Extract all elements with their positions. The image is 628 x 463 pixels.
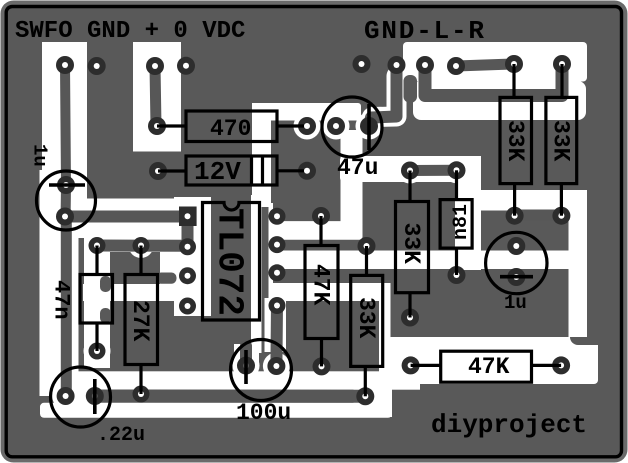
wire clearance: channel with 47n/27K top pads [84,231,200,252]
wire clearance: bottom band upper [40,371,420,389]
pad R33K-2 top [553,55,571,73]
svg-text:SWFO GND + 0 VDC: SWFO GND + 0 VDC [15,18,245,45]
resistor R33K-1 [500,64,532,216]
pad TL072 pin1 square [179,207,197,227]
pad P4 [177,57,195,75]
svg-text:1u: 1u [29,144,51,167]
pad P1 SWF [56,56,74,74]
svg-text:.22u: .22u [97,424,145,447]
pad C100u minus [267,357,285,375]
wire clearance: bottom band lower [40,403,392,418]
pad R33K-mid top [358,237,376,255]
resistor R47K-horiz [411,351,561,382]
pad R47K-vert top [312,207,330,225]
pad C100u plus [237,357,255,375]
capacitor C1u-left outline [37,171,96,230]
pad C1uR minus [507,268,525,286]
wire: C1u bottom to IC pin1 [65,211,184,223]
resistor R33K-2 [546,64,577,216]
wire: C1u bottom down to C.22u left [61,217,72,393]
wire: IC pin1 to pin2 [182,216,194,247]
pad top right D [447,57,465,75]
wire clearance: C100u left pad channel [234,344,259,366]
wire: C1u top to bottom pad [61,185,71,217]
svg-text:GND-L-R: GND-L-R [364,16,486,46]
pad TL072 pin2 [179,238,196,255]
wire: pad B to C47u plus [369,65,397,126]
svg-text:33K: 33K [548,120,574,162]
pad R470 right [298,117,316,135]
pad R47K-vert bottom [313,357,331,375]
pad C1u-left bottom [56,208,74,226]
wire clearance: vertical west of 47u island [341,130,363,225]
resistor R47K-vert [305,216,338,366]
pad C.22u plus [86,387,104,405]
wire clearance: band above R470 right pad [252,103,361,121]
wire clearance: band alpha across 1u-right [269,251,587,270]
wire clearance: channel pad4R to C100u right pad [265,298,287,352]
pad TL072 pin3 [179,267,196,284]
wire clearance: 18n column [455,156,481,270]
wire: pad to pad in top band [456,64,514,66]
pad D12V right [298,162,316,180]
wire: pin2 to C47n/R27K tops [97,240,188,252]
wire clearance: right column [569,194,588,345]
wire clearance: column B (GND pin to R470 left) [133,42,181,152]
svg-text:33K: 33K [353,297,379,339]
wire: C100u left stub [240,346,252,366]
wire clearance: band beta right [269,283,390,301]
pad R47K-horiz right [552,356,570,374]
wire: 33K-up top to 18n top [410,165,457,176]
capacitor C1u-right outline [486,232,547,293]
plane notches in 47n column [100,276,111,292]
wire: P3 to R470 left [155,66,156,126]
op-amp U1 TL072 outline [203,203,260,321]
pad R470 left [148,117,166,135]
svg-text:47n: 47n [49,280,74,320]
wire clearance: 33K bottom pads band [479,190,587,211]
plane notch above 47K right pad [570,337,598,345]
pad R33K-up top [401,162,419,180]
pad R33K-1 top [505,55,523,73]
wire clearance: strip under IC right edge [251,195,262,353]
svg-text:47u: 47u [337,155,378,181]
wire clearance: R47K horizontal band [387,337,598,384]
resistor R33K-mid [351,246,383,396]
pad TL072 pin7 [269,236,286,253]
capacitor C47u outline [322,97,382,157]
pad top right C [416,56,434,74]
wire clearance: trace from pad B down to C47u [372,76,397,117]
wire clearance: step around pad near R47K [374,374,392,417]
svg-text:47K: 47K [308,264,334,306]
plane tongue into pin3 white [156,273,177,284]
wire clearance: band beta left [83,284,201,301]
zener D12V [158,156,304,185]
wire: GND-L-R loop trace [425,64,562,96]
svg-text:diyproject: diyproject [431,410,587,440]
capacitor C18n [440,170,472,275]
wire clearance: C.22u left pad [52,383,79,410]
wire clearance: pads P1 and C1u-left [53,172,80,199]
wire: P1 to C1u top [65,65,66,185]
pad P2 GND [88,57,106,75]
capacitor C100u outline [231,340,292,401]
pad TL072 pin6 [269,264,286,281]
pad R33K-2 bottom [552,207,570,225]
wire: bottom band trace [95,390,366,403]
wire clearance: top right band GND-L-R [403,42,587,82]
svg-text:1u: 1u [504,292,527,314]
pad C47n top [89,237,106,254]
pad C47n bottom [89,343,106,360]
svg-text:12V: 12V [194,157,241,187]
svg-text:33K: 33K [398,223,424,265]
pad R27K bottom [133,386,150,403]
svg-text:100u: 100u [236,400,291,426]
svg-text:33K: 33K [502,120,528,162]
wire clearance: column down to bottom band [379,283,391,374]
svg-text:470: 470 [210,116,251,142]
pad top right A [353,55,371,73]
svg-text:TL072: TL072 [209,208,250,316]
svg-text:27K: 27K [127,300,153,342]
pad C47u plus [360,117,378,135]
pad D12V left [149,162,167,180]
pad P3 [146,57,164,75]
pad C.22u minus [57,387,75,405]
wire clearance: isolation band right of IC pin8 row [269,221,363,240]
svg-text:47K: 47K [468,354,510,380]
wire clearance: column A (SWF pin to C-1u-left) [42,42,87,202]
wire clearance: 47n pads column [84,232,110,368]
pad C18n top [448,161,466,179]
pad R33K-1 bottom [506,207,524,225]
capacitor C.22u outline [51,367,111,427]
wire: IC pad4R to C100u right [270,306,283,367]
wire clearance: 18n top band [340,156,479,182]
pad TL072 pin8 [269,208,286,225]
wire clearance: TL072 left pads channel [174,197,211,316]
wire clearance: horizontal channel 1u bottom pad to IC pin1 [50,199,211,239]
pad R33K-up bottom [401,309,419,327]
wire: 33K bottoms link [515,210,562,221]
pad C1u-left top [57,176,75,194]
pad C18n bottom [448,266,466,284]
pad R47K-horiz left [402,356,420,374]
wire clearance: TL072 right pads sliver [269,203,274,317]
pad C47u minus [327,117,345,135]
resistor R33K-up [396,171,429,318]
pad C1uR plus [507,237,525,255]
wire clearance: vertical trace channel C1u to C.22u [40,170,79,396]
pad TL072 pin4 [179,298,196,315]
pad top right B [388,56,406,74]
pad R33K-mid bottom [356,387,374,405]
resistor R27K [125,246,158,395]
svg-text:n81: n81 [450,204,473,240]
resistor R470 [157,111,304,142]
wire clearance: column down from band to TL072 [252,103,271,207]
plane pocket left of vertical trace in top band [404,75,418,103]
capacitor C47n [80,246,113,352]
pad R27K top [133,237,150,254]
wire clearance: channel below band for trace t9 [413,81,586,120]
pad TL072 pin5 [269,297,286,314]
